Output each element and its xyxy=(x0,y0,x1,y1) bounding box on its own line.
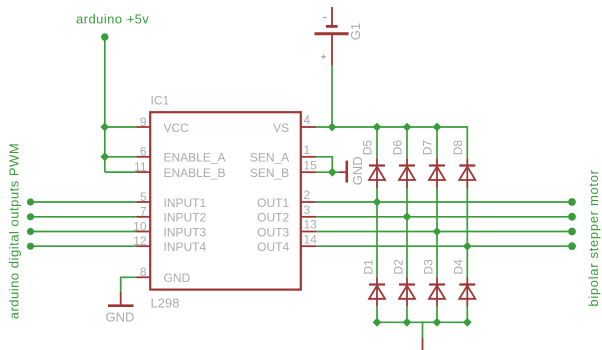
svg-text:15: 15 xyxy=(304,158,318,172)
diode D3 xyxy=(429,277,445,306)
wire input1 xyxy=(31,201,137,203)
junction VS D7 xyxy=(433,123,442,132)
wire column D5 top xyxy=(376,127,378,158)
junction VS D6 xyxy=(403,123,412,132)
svg-text:11: 11 xyxy=(134,160,147,174)
svg-text:13: 13 xyxy=(304,218,318,232)
battery G1 minus sign xyxy=(323,17,327,19)
svg-text:INPUT2: INPUT2 xyxy=(164,211,207,225)
junction OUT3 D7 xyxy=(433,227,442,236)
wire column D7-D3 middle xyxy=(436,188,438,277)
junction OUT4 D8 xyxy=(463,242,472,251)
node out1 end dot xyxy=(568,198,576,206)
svg-text:IC1: IC1 xyxy=(151,94,170,108)
node +5v dot xyxy=(101,33,108,40)
junction rail D4 xyxy=(463,318,472,327)
pin 12 stub xyxy=(137,245,151,247)
wire +5v to pin 6 xyxy=(105,156,137,158)
svg-text:4: 4 xyxy=(304,113,311,127)
wire OUT3 xyxy=(316,231,572,233)
svg-text:D5: D5 xyxy=(361,140,375,156)
svg-text:10: 10 xyxy=(133,219,147,233)
op-amp IC1 L298 box xyxy=(150,112,301,289)
diode D2 xyxy=(399,277,415,306)
svg-text:L298: L298 xyxy=(151,295,180,310)
svg-text:GND: GND xyxy=(350,156,365,185)
pin 13 stub xyxy=(301,231,316,233)
pin 9 stub xyxy=(137,126,151,128)
wire column D7 top xyxy=(436,127,438,158)
svg-text:2: 2 xyxy=(304,188,311,202)
diode D6 xyxy=(399,158,415,188)
junction rail D3 xyxy=(433,318,442,327)
wire OUT1 xyxy=(316,201,572,203)
svg-text:D6: D6 xyxy=(391,140,405,156)
wire bottom rail xyxy=(377,321,467,323)
svg-text:1: 1 xyxy=(304,143,311,157)
pin 4 stub xyxy=(301,126,316,128)
svg-text:bipolar stepper motor: bipolar stepper motor xyxy=(586,169,601,306)
wire input3 xyxy=(31,231,137,233)
wire +5v to pin 11 xyxy=(105,171,137,173)
svg-text:INPUT3: INPUT3 xyxy=(164,225,207,239)
svg-text:SEN_A: SEN_A xyxy=(250,151,289,165)
node input3 end dot xyxy=(27,228,34,235)
bottom supply stub (cut off) xyxy=(422,338,424,350)
ground GND (near SEN pins) xyxy=(339,161,347,183)
svg-text:5: 5 xyxy=(140,190,147,204)
pin 11 stub xyxy=(137,171,151,173)
svg-text:G1: G1 xyxy=(348,23,363,40)
junction battery VS xyxy=(328,123,337,132)
svg-text:14: 14 xyxy=(304,232,318,246)
svg-text:arduino digital outputs PWM: arduino digital outputs PWM xyxy=(7,143,22,320)
wire column D5-D1 middle xyxy=(376,188,378,277)
wire +5v to pin 9 xyxy=(105,126,137,128)
junction rail D2 xyxy=(403,318,412,327)
wire bottom stub xyxy=(422,322,424,337)
pin 1 stub xyxy=(301,156,316,158)
svg-text:SEN_B: SEN_B xyxy=(250,166,289,180)
svg-text:D1: D1 xyxy=(361,259,375,275)
wire column D3 bottom xyxy=(436,306,438,322)
node input4 end dot xyxy=(27,243,34,250)
ground GND (bottom left) xyxy=(108,292,134,306)
svg-text:GND: GND xyxy=(106,309,135,324)
pin 15 stub xyxy=(301,171,316,173)
diode D8 xyxy=(459,158,475,188)
svg-text:arduino +5v: arduino +5v xyxy=(76,12,149,27)
svg-text:D4: D4 xyxy=(452,259,466,275)
svg-text:6: 6 xyxy=(140,145,147,159)
wire OUT4 xyxy=(316,245,572,247)
svg-text:D8: D8 xyxy=(451,140,465,156)
svg-text:8: 8 xyxy=(140,265,147,279)
svg-text:OUT2: OUT2 xyxy=(257,211,289,225)
svg-text:OUT3: OUT3 xyxy=(257,225,289,239)
svg-text:ENABLE_B: ENABLE_B xyxy=(164,166,226,180)
wire +5v vertical rail xyxy=(104,37,106,172)
svg-text:GND: GND xyxy=(164,271,191,285)
wire column D6-D2 middle xyxy=(406,188,408,277)
junction OUT1 D5 xyxy=(373,198,382,207)
wire pin8 to ground xyxy=(121,277,139,292)
svg-text:VCC: VCC xyxy=(164,121,190,135)
svg-text:D3: D3 xyxy=(421,259,435,275)
wire column D1 bottom xyxy=(376,306,378,322)
svg-text:INPUT1: INPUT1 xyxy=(164,196,207,210)
wire SEN_B to gnd xyxy=(316,171,339,173)
pin 10 stub xyxy=(137,231,151,233)
diode D1 xyxy=(369,277,385,306)
junction SEN gnd xyxy=(328,168,337,177)
svg-text:VS: VS xyxy=(273,121,289,135)
node out3 end dot xyxy=(568,228,576,236)
wire column D4 bottom xyxy=(466,306,468,322)
svg-text:12: 12 xyxy=(133,234,147,248)
wire OUT2 xyxy=(316,216,572,218)
pin 3 stub xyxy=(301,216,316,218)
wire input2 xyxy=(31,216,137,218)
diode D5 xyxy=(369,158,385,188)
svg-text:ENABLE_A: ENABLE_A xyxy=(164,151,226,165)
battery G1 plus sign xyxy=(321,55,326,60)
wire column D2 bottom xyxy=(406,306,408,322)
pin 2 stub xyxy=(301,201,316,203)
battery G1 xyxy=(315,7,349,66)
junction +5v pin6 xyxy=(100,152,109,161)
wire battery to VS rail xyxy=(331,66,333,128)
svg-text:D2: D2 xyxy=(391,259,405,275)
junction +5v pin9 xyxy=(100,123,109,132)
svg-text:D7: D7 xyxy=(421,140,435,156)
pin 6 stub xyxy=(137,156,151,158)
pin 5 stub xyxy=(137,201,151,203)
svg-text:7: 7 xyxy=(140,205,147,219)
pin 14 stub xyxy=(301,245,316,247)
svg-text:OUT1: OUT1 xyxy=(257,196,289,210)
wire VS top rail xyxy=(316,127,467,158)
svg-text:3: 3 xyxy=(304,203,311,217)
svg-text:OUT4: OUT4 xyxy=(257,240,289,254)
diode D4 xyxy=(459,277,475,306)
junction VS D5 xyxy=(373,123,382,132)
svg-text:INPUT4: INPUT4 xyxy=(164,240,207,254)
node input1 end dot xyxy=(27,198,34,205)
wire input4 xyxy=(31,245,137,247)
pin 8 stub xyxy=(137,276,151,278)
svg-text:9: 9 xyxy=(140,115,147,129)
pin 7 stub xyxy=(137,216,151,218)
junction rail D1 xyxy=(373,318,382,327)
diode D7 xyxy=(429,158,445,188)
wire column D6 top xyxy=(406,127,408,158)
junction OUT2 D6 xyxy=(403,212,412,221)
wire column D8-D4 middle xyxy=(466,188,468,277)
wire SEN_A xyxy=(316,157,332,172)
node out4 end dot xyxy=(568,242,576,250)
node out2 end dot xyxy=(568,213,576,221)
node input2 end dot xyxy=(27,213,34,220)
